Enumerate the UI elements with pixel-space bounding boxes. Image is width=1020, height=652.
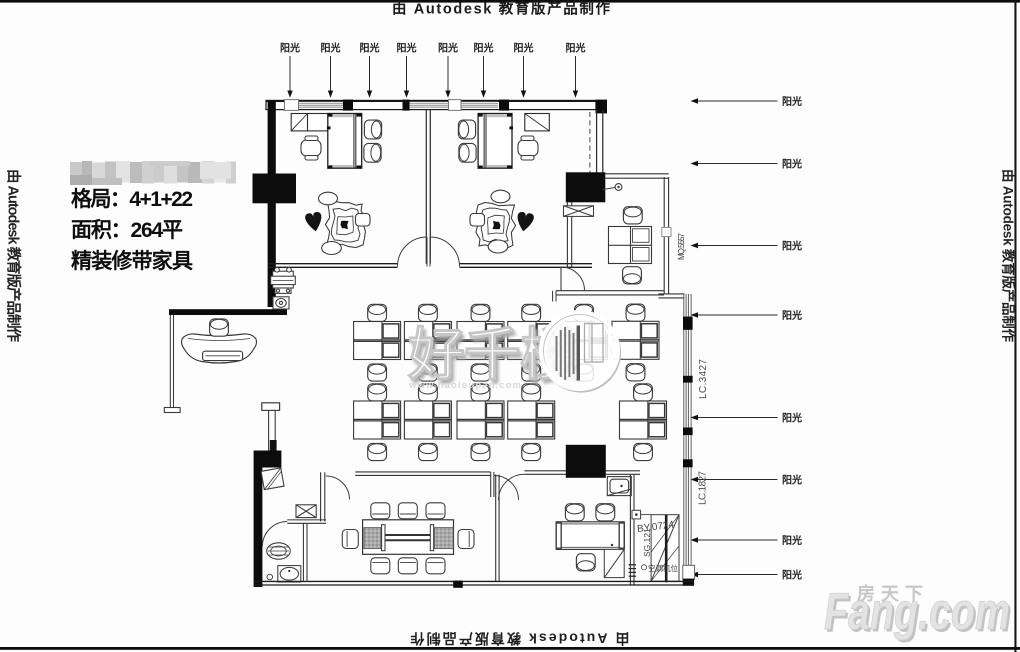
office2 task chair [518,136,538,160]
meeting chair east end [458,530,474,549]
wall: east window band [684,294,691,585]
sunshine arrow right y=479.5 [691,473,803,486]
toilet floor drain [267,574,273,580]
br-office chair bottom [576,554,595,571]
east wall mullion 3 [683,428,693,436]
sunshine arrow top x=369.5 [360,42,380,98]
br-office sink box [607,477,631,496]
svg-text:由 Autodesk 教育版产品制作: 由 Autodesk 教育版产品制作 [5,169,23,343]
svg-text:阳光: 阳光 [397,42,417,55]
svg-text:由 Autodesk 教育版产品制作: 由 Autodesk 教育版产品制作 [411,631,630,647]
office2 desk [478,114,513,169]
wall: br-office north (east span) [606,471,641,475]
wall: jog to east window wall [659,294,685,298]
svg-text:阳光: 阳光 [280,42,300,55]
wall: offices south (right span) [460,264,593,268]
wall fitting circle [632,510,651,519]
svg-text:Fang.com: Fang.com [824,583,1010,641]
east wall grille ticks [629,565,636,576]
office2 glass line (dashed) [589,112,591,173]
svg-text:空调机位: 空调机位 [648,563,678,573]
svg-text:精装修带家具: 精装修带家具 [71,249,193,273]
sunshine arrow right y=540 [691,534,803,547]
br-office door arc [499,474,525,500]
reception chair [210,319,229,336]
workstation cluster B4 [508,384,555,461]
reception screen pole [164,315,180,413]
watermark logo tower outline [585,324,604,363]
toilet sink [278,566,301,582]
east wall mullion 4 [683,459,693,467]
workstation cluster B5 [620,384,667,461]
border bottom [0,647,1020,650]
sunshine arrow top x=406.5 [397,42,417,98]
office1 corner cabinet (diagonal) [291,114,328,131]
AC closet [651,515,679,582]
door arc office2 [430,237,460,267]
sunshine arrow right y=163.5 [691,157,803,170]
br-office desk [556,522,624,550]
svg-text:LC.3427: LC.3427 [698,359,709,399]
office2 corner cabinet (diagonal) [525,114,550,131]
north wall mullion block 3 [499,100,509,111]
wall: br-office north (west span) [524,471,566,475]
workstation cluster A2 [404,304,451,381]
workstation cluster B3 [457,384,504,461]
meeting chairs bottom [371,558,390,574]
toilet cabinet (X box) [296,505,316,518]
wall: toilet east [303,523,307,581]
entrance door leaf (tilted) [261,468,284,490]
sunshine arrow right y=101 [691,95,803,108]
office1 desk [327,114,362,169]
workstation cluster A5 [561,304,608,381]
meeting west door arc [326,476,350,500]
wall: toilet top [287,520,326,523]
svg-text:MQ.5557: MQ.5557 [677,232,686,260]
svg-text:SG.121: SG.121 [642,528,652,557]
column C3 (south middle) [566,445,606,478]
north wall window break mid [449,100,462,111]
br-office corner unit (diagonal) [604,549,624,577]
svg-text:由 Autodesk 教育版产品制作: 由 Autodesk 教育版产品制作 [1001,169,1017,343]
wall: upper-right room north [605,174,669,178]
AC closet right rail [665,515,668,583]
office2 guest chairs [458,120,475,139]
meeting chair west end [342,530,358,549]
svg-text:阳光: 阳光 [474,42,494,55]
wall: upper-right room east [664,177,668,294]
north wall mullion block 1 [343,100,353,111]
office2 plant [470,190,535,253]
toilet wc [267,543,291,559]
south wall block [453,581,463,588]
office1 task chair [301,136,321,160]
wall: offices south (left span) [268,264,398,268]
wall: west main (thick) [268,101,276,307]
toilet door arc [262,522,287,547]
upper-right room chairs [623,207,642,224]
entrance pillar (black) [254,451,282,468]
east wall mullion 2 [683,376,693,383]
upper-right room door handle [603,184,622,191]
svg-text:阳光: 阳光 [782,157,802,170]
sunshine arrow top x=448 [438,42,458,98]
sunshine arrow right y=417.5 [691,411,803,424]
sunshine arrow top x=523.5 [514,42,534,98]
entrance pier cap [262,403,280,411]
utility box below printer [273,297,289,309]
workstation cluster A4 [508,304,555,381]
upper-right east window break [662,228,671,237]
watermark characters [407,323,580,391]
meeting chairs top [371,503,390,519]
border right [1014,0,1016,652]
svg-text:阳光: 阳光 [514,42,534,55]
svg-text:格局：4+1+22: 格局：4+1+22 [71,187,193,211]
upper-right room low cabinet (X) [564,206,594,217]
fang.com logo [824,583,1012,644]
north wall mullion block 2 [403,100,410,111]
sunshine arrow top x=290 [280,42,300,98]
conference table [363,520,454,555]
svg-text:面积：264平: 面积：264平 [71,219,183,242]
border top [0,0,1020,3]
door jamb below upper-right room [553,291,556,302]
wall: center partition between offices [426,110,430,264]
svg-text:阳光: 阳光 [782,309,802,322]
sunshine arrow right y=574.5 [691,568,803,581]
south-east corner block [683,579,694,586]
east wall sill box [683,565,695,579]
wall: reception branch (thick) [169,309,287,315]
label AC position [641,563,678,573]
svg-text:阳光: 阳光 [321,42,341,55]
door leaf+arc upper-right room [561,267,585,291]
svg-text:阳光: 阳光 [438,42,458,55]
reception desk (curved) [182,334,257,363]
blurred mosaic strip [70,161,236,185]
wall: office2 east partition [597,110,603,174]
svg-text:阳光: 阳光 [782,95,802,108]
wall: south main [254,581,694,585]
column C1 (west) [253,174,297,204]
svg-text:阳光: 阳光 [782,239,802,252]
svg-text:LC.1827: LC.1827 [698,471,709,505]
sunshine arrow top x=330.5 [321,42,341,98]
sunshine arrow top x=575.5 [566,42,586,98]
workstation cluster A1 [354,304,401,381]
sunshine arrow right y=245.5 [691,239,803,252]
north-east corner block [596,100,608,114]
wall: upper-right room south [556,291,664,295]
watermark logo bars [557,326,579,381]
entrance pier shaft [269,410,277,450]
wall: meeting north [355,472,490,476]
svg-text:www.haoloupan.com: www.haoloupan.com [408,380,521,391]
wall: west lower (thick) [254,468,263,588]
sunshine arrow top x=483.5 [474,42,494,98]
meeting east door arc [494,476,519,501]
office1 plant [304,192,370,254]
svg-text:阳光: 阳光 [782,568,802,581]
br-office chairs top [565,504,584,521]
workstation cluster B1 [354,384,401,461]
door leaves at center [426,237,428,267]
workstation cluster A6 [612,304,659,381]
printer/copier [271,268,296,294]
wall: br-office east [630,474,634,585]
svg-text:阳光: 阳光 [566,42,586,55]
wall: upper-right room west [567,202,571,267]
svg-text:阳光: 阳光 [782,473,802,486]
wall: meeting east / office west [496,475,499,582]
wall: north window band [266,100,596,109]
door arc office1 [398,237,428,267]
east wall mullion 1 [683,317,693,330]
upper-right room desk pair [609,227,652,264]
watermark circle logo [541,312,620,391]
meeting north-east door jamb [491,472,494,497]
office1 guest chairs [364,120,381,139]
svg-text:阳光: 阳光 [360,42,380,55]
column C2 [566,172,606,202]
sunshine arrow right y=315 [691,309,803,322]
svg-text:由 Autodesk 教育版产品制作: 由 Autodesk 教育版产品制作 [392,0,611,18]
svg-text:阳光: 阳光 [782,534,802,547]
workstation cluster A3 [457,304,504,381]
wall: meeting west [321,472,325,521]
svg-text:阳光: 阳光 [782,411,802,424]
north wall window break left [285,100,299,111]
workstation cluster B2 [404,384,451,461]
